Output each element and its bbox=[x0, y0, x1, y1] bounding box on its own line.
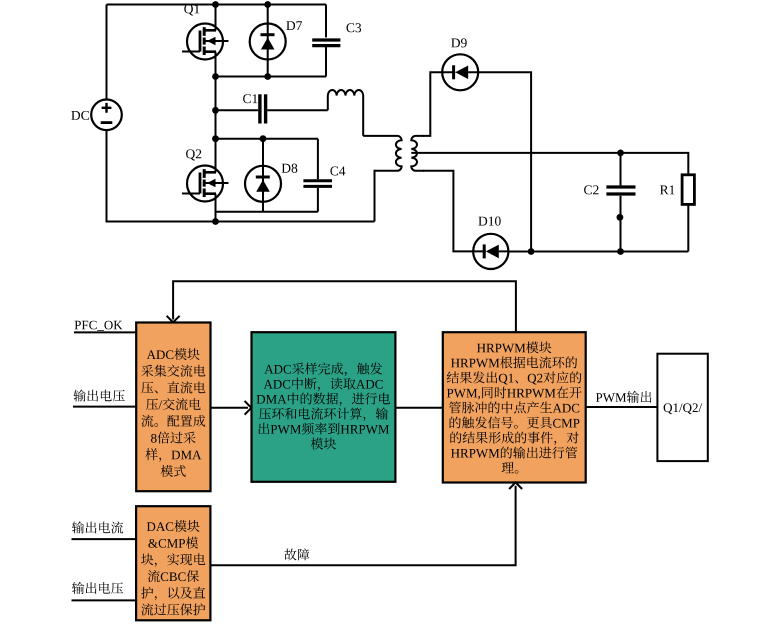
wire 输出电流 input bbox=[72, 538, 137, 540]
label D7 bbox=[286, 21, 302, 30]
capacitor C1 bbox=[216, 94, 328, 123]
block ADC module bbox=[136, 323, 210, 492]
capacitor C4 bbox=[303, 139, 332, 212]
transistor Q2 bbox=[187, 166, 223, 202]
transistor Q1 bbox=[187, 24, 223, 60]
block ADC sampling routine bbox=[252, 332, 396, 482]
label input 输出电压 (ADC) bbox=[74, 390, 125, 402]
wire R1 bottom lead bbox=[687, 204, 689, 251]
node D9 rail junction bbox=[528, 248, 535, 255]
text Q1/Q2/ bbox=[664, 403, 703, 414]
wire secondary top to D9 bbox=[423, 72, 442, 136]
text ADC module bbox=[147, 348, 200, 360]
wire Q2 box top bbox=[216, 138, 318, 140]
wire feedback HRPWM to ADC bbox=[173, 281, 516, 332]
wire 输出电压 input bbox=[73, 406, 136, 408]
wire bottom rail bbox=[216, 221, 375, 223]
resistor R1 bbox=[682, 175, 694, 205]
node C2 top bbox=[617, 150, 624, 157]
wire rail Q1 source to Q2 drain bbox=[215, 52, 217, 173]
label R1 bbox=[660, 185, 675, 194]
wire 输出电压 input 2 bbox=[72, 599, 137, 601]
node C2 bottom rail bbox=[617, 248, 624, 255]
label DC bbox=[71, 111, 89, 120]
transformer T1 primary bbox=[363, 136, 401, 171]
wire Q2 box bottom bbox=[216, 211, 318, 213]
arrowhead into ADC top bbox=[167, 316, 180, 323]
label D9 bbox=[451, 38, 467, 47]
wire ADC to sample block bbox=[211, 407, 249, 409]
node rail-top junction bbox=[212, 1, 219, 8]
label Q2 bbox=[186, 149, 201, 160]
wire D9 to output rail bbox=[478, 72, 531, 251]
wire top rail bbox=[107, 4, 327, 6]
node D7 top bbox=[264, 1, 271, 8]
diode D9 bbox=[442, 54, 478, 90]
block DAC-CMP module bbox=[136, 506, 210, 620]
wire fault DAC to HRPWM bbox=[210, 486, 515, 565]
wire Q1 box mid bbox=[216, 76, 327, 78]
block HRPWM module bbox=[443, 332, 586, 482]
label C3 bbox=[347, 23, 362, 32]
node bottom rail junction bbox=[212, 218, 219, 225]
wire HRPWM to Q1/Q2 driver bbox=[586, 406, 658, 408]
wire secondary bottom to D10 bbox=[423, 171, 473, 252]
wire output bottom rail bbox=[508, 251, 688, 253]
node D7 bottom bbox=[264, 73, 271, 80]
capacitor C3 bbox=[312, 5, 340, 77]
label C4 bbox=[330, 167, 345, 176]
node C2 lead dot bbox=[617, 214, 624, 221]
node Q2 box top-left bbox=[212, 135, 219, 142]
label Q1 bbox=[184, 4, 199, 15]
diode D7 bbox=[267, 5, 269, 77]
wire left rail (DC- to bottom) bbox=[107, 130, 216, 222]
arrowhead into HRPWM bottom bbox=[509, 482, 522, 489]
inductor Lr bbox=[328, 90, 363, 136]
block Q1/Q2 output bbox=[657, 354, 707, 461]
label D8 bbox=[282, 164, 298, 173]
wire PFC_OK input bbox=[74, 331, 136, 333]
wire primary bottom return bbox=[375, 171, 376, 222]
wire left rail (DC+ to top) bbox=[106, 5, 108, 100]
transformer T1 secondary bbox=[411, 136, 424, 171]
capacitor C2 bbox=[606, 153, 635, 252]
label input 输出电流 (DAC) bbox=[72, 521, 123, 533]
node Q1 box mid-left bbox=[212, 73, 219, 80]
arrowhead into sample block bbox=[245, 401, 252, 415]
DC source V1 bbox=[91, 100, 122, 131]
text DAC-CMP module bbox=[147, 520, 200, 532]
node D8 top bbox=[260, 135, 267, 142]
wire sample block to HRPWM bbox=[395, 407, 442, 409]
wire rail Q2 source to bottom bbox=[215, 194, 217, 222]
text HRPWM module bbox=[477, 341, 551, 353]
text ADC sampling routine bbox=[264, 363, 382, 377]
label PWM输出 bbox=[596, 391, 652, 403]
label 故障 bbox=[284, 548, 309, 560]
label PFC_OK bbox=[75, 321, 123, 331]
node C1 tap bbox=[212, 107, 219, 114]
label input 输出电压 (DAC) bbox=[72, 582, 123, 594]
diode D8 bbox=[262, 139, 264, 212]
diode D10 bbox=[473, 234, 508, 269]
label C1 bbox=[243, 94, 257, 103]
wire drain Q1 / rail segment bbox=[215, 5, 217, 31]
wire secondary center tap to load bbox=[411, 153, 688, 175]
label C2 bbox=[584, 185, 598, 194]
label D10 bbox=[478, 217, 500, 226]
